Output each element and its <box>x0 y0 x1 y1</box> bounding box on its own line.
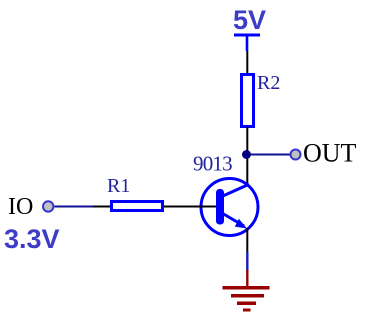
power bar 5V <box>234 34 260 52</box>
wire emitter pin black <box>246 228 248 252</box>
resistor R2 <box>242 75 254 127</box>
junction node <box>242 150 251 159</box>
svg-text:3.3V: 3.3V <box>4 224 60 254</box>
svg-text:R1: R1 <box>107 175 130 197</box>
wire to R1 <box>93 206 110 208</box>
wire R2 to junction <box>246 127 248 155</box>
wire IO terminal <box>55 206 94 208</box>
svg-text:9013: 9013 <box>193 152 232 176</box>
svg-text:IO: IO <box>8 194 33 220</box>
resistor R1 <box>112 202 163 211</box>
svg-text:OUT: OUT <box>303 139 357 168</box>
wire emitter blue segment <box>246 252 248 271</box>
port OUT terminal <box>291 150 301 160</box>
transistor Q1 9013 <box>201 179 258 236</box>
port IO terminal <box>43 201 53 211</box>
ground <box>223 286 270 312</box>
wire 5V to R2 <box>246 51 248 74</box>
wire R1 to base <box>164 206 216 208</box>
wire collector pin <box>246 155 248 184</box>
wire ground red segment <box>246 270 248 286</box>
wire junction to OUT <box>246 154 291 156</box>
svg-text:5V: 5V <box>233 5 266 35</box>
svg-text:R2: R2 <box>257 72 280 94</box>
